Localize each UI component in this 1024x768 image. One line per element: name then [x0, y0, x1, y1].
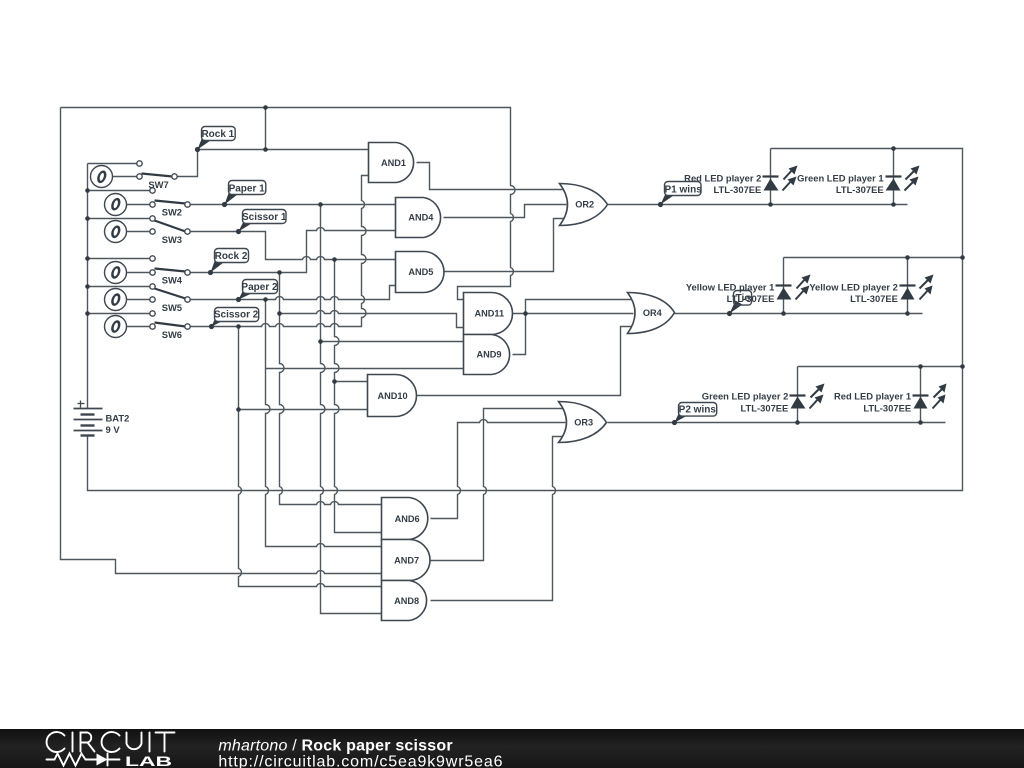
- svg-text:OR2: OR2: [575, 200, 594, 210]
- svg-text:Scissor 2: Scissor 2: [214, 310, 259, 321]
- svg-text:Yellow LED player 1: Yellow LED player 1: [686, 282, 775, 293]
- svg-text:AND8: AND8: [394, 596, 419, 606]
- svg-text:Paper 1: Paper 1: [229, 183, 266, 194]
- svg-text:Paper 2: Paper 2: [241, 282, 278, 293]
- svg-text:AND6: AND6: [395, 514, 420, 524]
- svg-text:P1 wins: P1 wins: [665, 184, 703, 195]
- svg-text:LTL-307EE: LTL-307EE: [714, 184, 762, 195]
- svg-text:LTL-307EE: LTL-307EE: [850, 293, 898, 304]
- svg-text:OR4: OR4: [643, 308, 663, 318]
- svg-text:LAB: LAB: [125, 754, 172, 768]
- svg-text:SW3: SW3: [162, 234, 182, 245]
- svg-text:AND5: AND5: [408, 267, 433, 277]
- svg-text:LTL-307EE: LTL-307EE: [836, 184, 884, 195]
- svg-text:http://circuitlab.com/c5ea9k9w: http://circuitlab.com/c5ea9k9wr5ea6: [218, 753, 503, 768]
- svg-text:SW2: SW2: [162, 207, 182, 218]
- svg-text:Green LED player 1: Green LED player 1: [797, 173, 884, 184]
- svg-text:mhartono / Rock paper scissor: mhartono / Rock paper scissor: [218, 738, 452, 755]
- svg-text:Tie: Tie: [736, 293, 751, 304]
- svg-text:OR3: OR3: [574, 418, 593, 428]
- svg-text:SW6: SW6: [162, 329, 182, 340]
- svg-text:BAT2: BAT2: [106, 412, 130, 423]
- svg-text:AND9: AND9: [476, 350, 501, 360]
- svg-text:Green LED player 2: Green LED player 2: [702, 391, 789, 402]
- svg-text:AND4: AND4: [408, 213, 434, 223]
- svg-text:AND10: AND10: [378, 391, 408, 401]
- svg-text:AND11: AND11: [475, 309, 505, 319]
- svg-text:SW4: SW4: [162, 275, 183, 286]
- svg-text:AND7: AND7: [394, 555, 419, 565]
- svg-text:Red LED player 1: Red LED player 1: [834, 391, 911, 402]
- svg-text:P2 wins: P2 wins: [679, 405, 717, 416]
- svg-text:Rock 2: Rock 2: [215, 251, 248, 262]
- svg-text:Yellow LED player 2: Yellow LED player 2: [809, 282, 898, 293]
- svg-text:Scissor 1: Scissor 1: [242, 212, 287, 223]
- svg-text:Rock 1: Rock 1: [201, 129, 234, 140]
- svg-text:SW5: SW5: [162, 302, 182, 313]
- svg-text:LTL-307EE: LTL-307EE: [741, 402, 789, 413]
- svg-text:9 V: 9 V: [106, 424, 121, 435]
- svg-text:LTL-307EE: LTL-307EE: [863, 402, 911, 413]
- svg-text:AND1: AND1: [381, 158, 406, 168]
